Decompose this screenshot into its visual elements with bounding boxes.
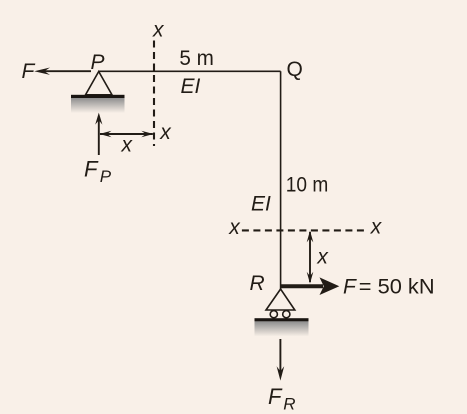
reaction arrow F_P — [95, 113, 102, 155]
svg-text:P: P — [91, 51, 105, 74]
svg-text:x: x — [370, 216, 383, 239]
svg-text:x: x — [316, 246, 329, 269]
force arrow F = 50 kN — [281, 277, 339, 295]
svg-text:x: x — [152, 18, 165, 41]
reaction arrow F_R — [277, 339, 285, 381]
roller support at R: triangle — [266, 289, 295, 310]
svg-text:R: R — [250, 272, 265, 295]
roller support at R: shaded ground — [255, 321, 309, 336]
force arrow F at P — [34, 68, 91, 75]
roller left — [270, 311, 277, 318]
roller support at R: base bar — [255, 318, 309, 321]
section line x-x (horizontal near R) — [242, 229, 368, 231]
pin support at P: triangle — [86, 72, 113, 95]
dimension arrow x at P — [99, 131, 153, 138]
svg-text:x: x — [159, 121, 172, 144]
svg-text:10 m: 10 m — [286, 173, 329, 196]
svg-text:5 m: 5 m — [179, 47, 214, 70]
svg-text:Q: Q — [287, 58, 303, 81]
svg-text:x: x — [121, 133, 134, 156]
dimension arrow x at R — [307, 231, 314, 284]
pin support at P: base bar — [71, 95, 125, 98]
svg-text:EI: EI — [251, 193, 271, 216]
section line x-x (vertical near P) — [153, 41, 155, 147]
wire: beam P-Q — [99, 70, 281, 72]
roller right — [283, 311, 290, 318]
svg-text:EI: EI — [181, 75, 201, 98]
svg-text:x: x — [228, 216, 241, 239]
svg-text:F: F — [22, 60, 36, 83]
wire: column Q-R — [280, 71, 282, 289]
pin support at P: shaded ground — [71, 98, 125, 113]
